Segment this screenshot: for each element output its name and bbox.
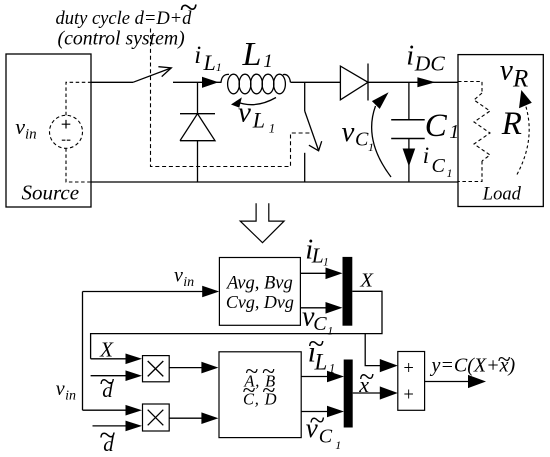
wire switch to inductor xyxy=(173,81,221,83)
svg-text:C: C xyxy=(355,128,369,150)
svg-text:1: 1 xyxy=(329,362,335,376)
wire d1 into multiplier1 xyxy=(91,375,126,377)
wire ABCD out2 xyxy=(301,411,328,413)
ABCD tilde box xyxy=(219,352,301,438)
svg-text:X: X xyxy=(99,338,114,362)
wire diode D2 to load xyxy=(368,81,458,83)
arrow M1 into ABCD xyxy=(201,362,218,374)
wire M2 to ABCD xyxy=(169,417,202,419)
svg-text:1: 1 xyxy=(263,51,273,72)
label iC1 xyxy=(423,143,453,180)
label y equals C X plus x tilde xyxy=(430,347,516,377)
wire vin into multiplier2 xyxy=(83,409,127,411)
svg-text:v: v xyxy=(15,114,25,139)
capacitor C1 top lead xyxy=(408,82,410,120)
Avg Bvg Cvg Dvg box xyxy=(219,258,300,326)
switch S2 blade xyxy=(305,111,319,151)
svg-text:v: v xyxy=(238,97,251,129)
svg-text:1: 1 xyxy=(323,257,329,269)
svg-text:~: ~ xyxy=(262,378,275,404)
svg-text:Source: Source xyxy=(22,181,80,205)
label vR xyxy=(500,55,528,93)
label d tilde 1 xyxy=(99,367,114,402)
svg-text:L: L xyxy=(242,36,262,73)
svg-text:X: X xyxy=(359,269,374,291)
svg-text:~: ~ xyxy=(242,378,255,404)
svg-text:v: v xyxy=(174,264,183,286)
label vC1 xyxy=(342,116,375,154)
label C tilde D tilde xyxy=(242,378,277,409)
arrow vin into Avg box xyxy=(202,286,219,298)
arrow d1 into multiplier1 xyxy=(126,370,143,381)
wire inductor to diode D2 xyxy=(291,81,341,83)
load box xyxy=(458,55,543,207)
svg-text:~: ~ xyxy=(359,362,374,393)
resistor R dashed lead bottom xyxy=(458,161,482,182)
wire Avg out2 xyxy=(300,307,327,309)
arrow M2 into ABCD xyxy=(201,412,218,424)
switch S2 lower contact xyxy=(304,153,306,182)
svg-text:v: v xyxy=(500,55,514,87)
svg-text:i: i xyxy=(423,143,429,168)
svg-text:~: ~ xyxy=(179,0,197,26)
svg-text:L: L xyxy=(311,244,324,268)
switch S2 arrowhead xyxy=(309,141,322,151)
svg-text:+: + xyxy=(402,386,414,406)
label vL1 xyxy=(238,97,275,136)
output arrowhead xyxy=(468,375,486,388)
svg-text:L: L xyxy=(252,108,265,133)
svg-text:Avg, Bvg: Avg, Bvg xyxy=(225,273,293,293)
arrow out1 into bar xyxy=(326,268,343,280)
wire Avg out1 xyxy=(300,272,327,274)
svg-text:1: 1 xyxy=(269,120,276,135)
vR dashed arc arrow xyxy=(517,90,532,175)
current arrow iC1 xyxy=(403,149,416,167)
label L1 xyxy=(242,36,273,73)
svg-text:~: ~ xyxy=(99,367,114,398)
arrow x tilde into summer xyxy=(380,386,398,399)
arrow out2 into bar xyxy=(326,302,343,314)
label v tilde C1 xyxy=(306,406,341,452)
source box xyxy=(6,54,91,207)
voltage source circle xyxy=(50,115,83,148)
svg-text:DC: DC xyxy=(414,52,446,76)
vL1 arc arrow xyxy=(231,97,276,107)
svg-text:C: C xyxy=(432,155,446,177)
svg-text:v: v xyxy=(342,116,355,148)
diode D1 xyxy=(180,82,215,182)
arrow out1 into bar2 xyxy=(327,371,344,383)
svg-text:~: ~ xyxy=(99,419,115,452)
switch S1 blade xyxy=(133,68,171,82)
svg-text:L: L xyxy=(203,50,216,75)
minus sign xyxy=(62,139,71,141)
svg-text:+: + xyxy=(402,359,414,379)
switch S2 upper contact xyxy=(304,82,306,111)
arrow vin into multiplier2 xyxy=(126,405,143,416)
label vin top input xyxy=(174,264,194,289)
svg-text:~: ~ xyxy=(497,347,510,373)
svg-text:in: in xyxy=(65,388,76,403)
svg-text:(control system): (control system) xyxy=(58,28,185,50)
wire X into multiplier1 xyxy=(91,358,126,360)
resistor R dashed lead top xyxy=(458,82,482,94)
label x tilde xyxy=(358,362,374,397)
wire source to switch xyxy=(91,81,133,83)
dashed control line xyxy=(151,29,312,167)
dashed lead top xyxy=(66,82,91,115)
label vin lower xyxy=(56,378,76,403)
multiplier M1 cross xyxy=(148,361,164,376)
switch S1 arrowhead xyxy=(158,67,171,77)
wire M1 to ABCD xyxy=(169,367,202,369)
output wire xyxy=(425,381,470,383)
svg-text:v: v xyxy=(56,378,65,400)
label duty cycle xyxy=(56,0,198,29)
diode D2 xyxy=(340,64,368,101)
arrow d2 into multiplier2 xyxy=(126,421,143,432)
svg-text:in: in xyxy=(25,127,37,143)
label i tilde L1 xyxy=(308,327,336,375)
svg-text:C: C xyxy=(425,108,448,144)
label C1 xyxy=(425,108,460,144)
multiplier M2 box xyxy=(143,404,170,431)
arrow X into summer xyxy=(380,359,398,372)
svg-text:1: 1 xyxy=(335,438,341,452)
inductor L1 coil xyxy=(221,74,290,94)
svg-text:1: 1 xyxy=(216,60,222,74)
X branch to summer xyxy=(365,334,381,366)
label iL1 mid xyxy=(305,235,328,269)
bottom rail wire xyxy=(91,181,458,183)
capacitor C1 plates xyxy=(391,120,425,139)
multiplier M2 cross xyxy=(148,410,164,426)
label iL1 xyxy=(194,42,222,75)
svg-text:1: 1 xyxy=(447,166,453,180)
wire x tilde to summer xyxy=(353,392,382,394)
svg-text:1: 1 xyxy=(327,324,333,338)
current arrow iDC xyxy=(417,77,435,87)
arrow out2 into bar2 xyxy=(327,406,344,418)
svg-text:Cvg, Dvg: Cvg, Dvg xyxy=(226,292,294,312)
label iDC xyxy=(406,41,445,76)
svg-text:duty cycle d=D+d: duty cycle d=D+d xyxy=(56,9,193,29)
svg-text:i: i xyxy=(406,41,414,72)
label vin source xyxy=(15,114,36,143)
resistor R zigzag xyxy=(474,93,490,161)
plus sign xyxy=(62,120,71,129)
svg-text:i: i xyxy=(194,42,201,69)
arrow X into multiplier1 xyxy=(126,354,143,365)
svg-text:Load: Load xyxy=(482,185,522,205)
vC1 arc arrow xyxy=(372,92,391,177)
black bar x tilde xyxy=(344,360,353,428)
svg-text:R: R xyxy=(512,66,528,93)
current arrow iL1 xyxy=(202,77,219,88)
summer box xyxy=(398,352,425,411)
wire ABCD out1 xyxy=(301,376,328,378)
black bar X xyxy=(343,257,353,326)
X feedback wire xyxy=(91,291,382,359)
multiplier M1 box xyxy=(143,356,170,382)
dashed lead bottom xyxy=(66,148,91,182)
big hollow arrow xyxy=(240,203,284,242)
wire vin vertical xyxy=(82,292,84,411)
svg-text:L: L xyxy=(314,349,328,374)
label vC1 mid xyxy=(302,301,333,337)
wire vin to Avg box xyxy=(83,291,204,293)
svg-text:1: 1 xyxy=(368,140,374,154)
svg-text:in: in xyxy=(183,275,194,290)
svg-text:C: C xyxy=(319,426,333,448)
svg-text:R: R xyxy=(501,106,522,142)
wire d2 into multiplier2 xyxy=(93,425,127,427)
label A tilde B tilde xyxy=(243,359,276,391)
capacitor C1 bottom lead xyxy=(408,139,410,183)
label d tilde 2 xyxy=(99,419,115,456)
